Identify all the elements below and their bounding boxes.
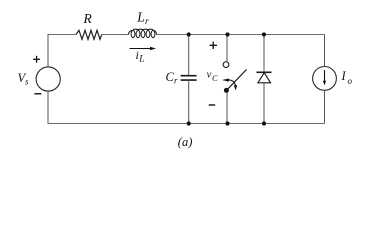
inductor Lr coil loops — [128, 29, 157, 37]
plus sign of vC — [210, 42, 218, 49]
svg-text:R: R — [83, 11, 93, 26]
svg-text:C: C — [212, 73, 218, 83]
diode branch wire upper — [263, 35, 265, 73]
svg-text:r: r — [174, 76, 178, 86]
wire top rail right segment — [157, 34, 325, 36]
node dot top switch — [225, 32, 229, 36]
minus sign of Vs — [34, 93, 41, 95]
capacitor Cr branch wire lower — [188, 80, 190, 123]
right branch wire lower — [324, 90, 326, 123]
switch branch wire lower — [226, 93, 228, 124]
switch pivot dot — [224, 88, 229, 93]
wire top rail left segment — [48, 34, 77, 36]
wire bottom rail — [48, 123, 325, 125]
plus sign of Vs — [33, 56, 40, 63]
switch open terminal circle — [223, 62, 229, 68]
wire left branch upper — [47, 35, 49, 68]
svg-text:r: r — [145, 17, 149, 27]
node dot bottom capacitor — [187, 121, 191, 125]
diode triangle — [258, 73, 271, 83]
right branch wire upper — [324, 35, 326, 67]
wire top rail mid segment — [102, 34, 129, 36]
current source Io circle — [313, 67, 337, 91]
svg-text:L: L — [136, 10, 145, 25]
node dot top diode — [262, 32, 266, 36]
minus sign of vC — [209, 104, 216, 106]
node dot bottom switch — [225, 121, 229, 125]
svg-text:o: o — [348, 76, 353, 86]
diode cathode bar — [257, 71, 272, 73]
switch motion curved arrow — [222, 79, 237, 91]
switch blade — [226, 70, 246, 91]
switch branch wire upper — [226, 35, 228, 62]
svg-text:(a): (a) — [178, 135, 193, 149]
source Vs circle — [36, 67, 60, 91]
wire left branch lower — [47, 91, 49, 123]
resistor R — [76, 30, 102, 39]
svg-text:L: L — [138, 55, 144, 65]
current source arrow — [323, 70, 326, 85]
capacitor Cr branch wire upper — [188, 35, 190, 76]
diode branch wire lower — [263, 83, 265, 124]
capacitor Cr plates — [181, 76, 197, 80]
node dot bottom diode — [262, 121, 266, 125]
current arrow iL — [130, 47, 157, 51]
svg-text:I: I — [341, 69, 347, 83]
node dot top capacitor — [187, 32, 191, 36]
svg-text:v: v — [207, 68, 212, 80]
svg-text:s: s — [25, 77, 29, 87]
